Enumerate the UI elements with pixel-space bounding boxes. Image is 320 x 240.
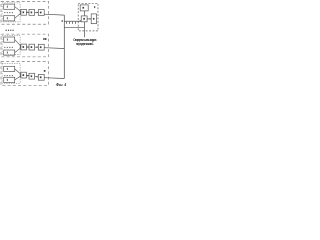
svg-text:Фиг. 4: Фиг. 4: [56, 82, 67, 87]
svg-text:передатчиков 1: передатчиков 1: [76, 42, 94, 46]
